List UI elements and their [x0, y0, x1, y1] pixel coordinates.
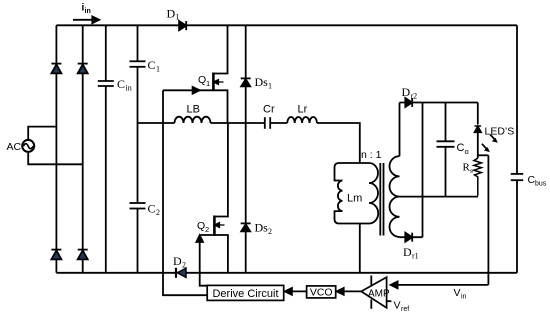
- wire bottom rail left of D2: [56, 272, 175, 274]
- diode Dr1: [405, 233, 412, 242]
- svg-text:AC: AC: [7, 141, 22, 153]
- transistor Q2: [214, 123, 228, 217]
- svg-text:1: 1: [268, 82, 272, 91]
- svg-text:VCO: VCO: [310, 287, 333, 299]
- svg-text:LB: LB: [187, 104, 200, 116]
- svg-text:V: V: [394, 300, 401, 312]
- wire AC bottom: [28, 152, 82, 165]
- svg-text:Ds: Ds: [255, 221, 269, 235]
- svg-text:Derive Circuit: Derive Circuit: [212, 288, 278, 300]
- wire Vin horizontal: [396, 284, 488, 286]
- wire Lr to transformer: [317, 123, 360, 163]
- inductor LB: [175, 117, 211, 123]
- wire output plus rail: [400, 102, 478, 104]
- wire bridge leg 2: [82, 25, 84, 272]
- svg-text:C: C: [148, 202, 156, 216]
- svg-text:n : 1: n : 1: [361, 149, 382, 161]
- svg-text:in: in: [85, 8, 91, 15]
- transformer secondary winding: [399, 103, 401, 157]
- wire secondary center tap: [400, 196, 479, 198]
- LED D-led: [475, 125, 482, 127]
- svg-text:D: D: [403, 245, 412, 259]
- resistor Rs: [474, 158, 482, 196]
- svg-text:Ds: Ds: [255, 75, 269, 89]
- svg-text:1: 1: [176, 13, 180, 22]
- svg-text:Lm: Lm: [347, 193, 362, 205]
- svg-text:o: o: [465, 147, 469, 156]
- wire primary bottom to rail: [359, 224, 361, 273]
- diode Ds2: [245, 123, 247, 273]
- svg-text:2: 2: [182, 261, 186, 270]
- capacitor Cbus: [516, 25, 518, 174]
- wire Q1 gate drive vertical: [163, 90, 207, 295]
- svg-text:D: D: [167, 7, 176, 21]
- arrow AMP to VCO: [342, 290, 361, 292]
- svg-text:D: D: [402, 85, 411, 99]
- svg-text:C: C: [457, 142, 465, 154]
- svg-text:in: in: [126, 84, 132, 93]
- arrow VCO to Derive: [290, 290, 307, 292]
- wire Vin tap stub: [478, 154, 489, 156]
- svg-text:bus: bus: [535, 181, 547, 188]
- box Derive Circuit: [207, 285, 284, 300]
- wire bridge leg 1: [55, 25, 57, 272]
- svg-text:in: in: [461, 294, 467, 301]
- wire secondary bottom to Dr1: [400, 236, 423, 238]
- capacitor Cr: [264, 117, 266, 129]
- svg-text:Q: Q: [198, 74, 206, 86]
- arrow i_in: [73, 19, 93, 21]
- wire Vin riser: [487, 155, 489, 285]
- LED arrow 2: [482, 144, 488, 150]
- transformer primary winding: [369, 163, 378, 224]
- svg-text:C: C: [148, 58, 156, 72]
- wire bottom rail right of D2: [185, 272, 517, 274]
- wire Dr1 riser: [422, 103, 424, 238]
- capacitor C1: [137, 25, 139, 61]
- bridge diode BR4 bottom-right: [78, 250, 88, 260]
- box VCO: [307, 286, 336, 298]
- svg-text:LED’S: LED’S: [485, 126, 515, 138]
- svg-text:Cr: Cr: [263, 104, 275, 116]
- wire Vref stub: [387, 300, 392, 302]
- svg-text:ref: ref: [401, 306, 409, 313]
- transistor Q1: [213, 25, 227, 73]
- wire top rail: [56, 24, 517, 26]
- capacitor Cin: [105, 25, 107, 81]
- LED branch wire: [477, 103, 479, 125]
- capacitor C2: [137, 123, 139, 203]
- svg-text:1: 1: [156, 65, 160, 74]
- wire mid resonant rail: [138, 122, 175, 124]
- svg-text:Lr: Lr: [298, 104, 308, 116]
- svg-text:r2: r2: [411, 92, 418, 101]
- diode Dr2: [405, 98, 412, 107]
- capacitor C0: [445, 103, 447, 142]
- wire AC top: [28, 127, 56, 141]
- wire Cr to Lr: [270, 122, 287, 124]
- wire Rs bottom corner handled by center tap: [477, 195, 479, 197]
- svg-text:2: 2: [268, 227, 272, 236]
- svg-text:s: s: [470, 166, 473, 175]
- svg-text:V: V: [454, 287, 461, 299]
- bridge diode BR2 top-right: [78, 64, 88, 74]
- svg-text:r1: r1: [412, 252, 419, 261]
- bridge diode BR1 top-left: [51, 64, 61, 74]
- svg-text:2: 2: [205, 225, 209, 234]
- diode D2: [177, 268, 186, 277]
- bridge diode BR3 bottom-left: [51, 250, 61, 260]
- wire Q2 gate drive vertical: [200, 240, 208, 286]
- wire LB to Cr: [211, 122, 265, 124]
- transformer core: [379, 163, 381, 236]
- inductor Lm box: [335, 163, 370, 181]
- svg-text:2: 2: [156, 208, 160, 217]
- svg-text:1: 1: [206, 79, 210, 88]
- inductor Lr: [287, 117, 317, 123]
- op-amp AMP: [361, 277, 386, 308]
- node AC source: [22, 140, 34, 152]
- diode D1: [179, 21, 186, 30]
- svg-text:C: C: [117, 77, 125, 91]
- svg-text:AMP: AMP: [368, 289, 390, 300]
- svg-text:D: D: [173, 254, 182, 268]
- LED arrow 1: [490, 135, 496, 141]
- diode Ds1: [245, 25, 247, 123]
- svg-text:Q: Q: [197, 220, 205, 232]
